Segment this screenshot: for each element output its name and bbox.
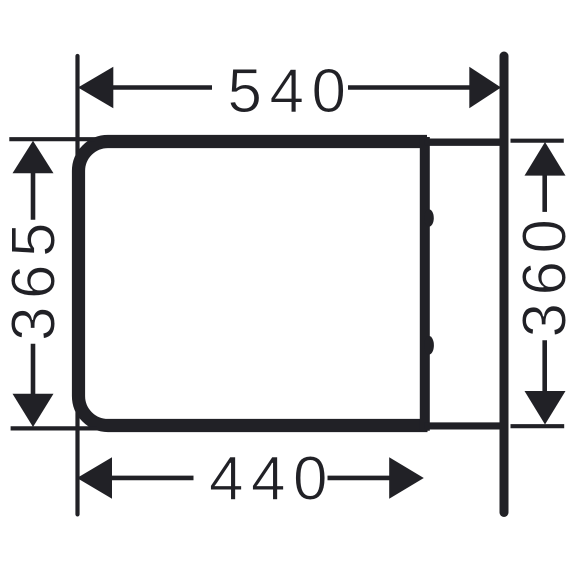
seat outline (rounded profile) (79, 142, 428, 426)
dimension 540 line left segment (110, 85, 212, 90)
dimension 360 arrow bottom (525, 391, 566, 425)
dimension 365 line upper segment (31, 171, 36, 220)
wall line (500, 56, 509, 513)
dimension 440 line right segment (328, 476, 392, 481)
dimension 365 arrow bottom (13, 394, 54, 427)
dimension 440 arrow left (77, 457, 112, 498)
hinge pin bump lower (424, 336, 434, 355)
dimension 365 arrow top (13, 141, 54, 174)
dimension 540 line right segment (348, 85, 471, 90)
dimension 360 line lower segment (542, 340, 547, 393)
connector line top (seat to wall) (425, 139, 501, 146)
dimension 360 line upper segment (542, 173, 547, 212)
svg-text:540: 540 (228, 57, 354, 126)
dimension 360 arrow top (525, 142, 566, 176)
svg-text:440: 440 (209, 445, 335, 514)
seat back edge (vertical) (420, 137, 430, 431)
extension line bottom-left (11, 426, 97, 430)
extension line top-right (511, 139, 564, 143)
dimension 440 arrow right (389, 457, 424, 498)
dimension 365 line lower segment (31, 344, 36, 395)
hinge pin bump upper (424, 209, 434, 226)
dimension 540 arrow right (469, 67, 501, 109)
dimension 440 line left segment (110, 476, 194, 481)
dimension 540 arrow left (78, 67, 113, 109)
extension line top-left (9, 137, 95, 141)
svg-text:360: 360 (511, 212, 568, 338)
extension line bottom-right (511, 424, 565, 428)
connector line bottom (seat to wall) (425, 422, 501, 429)
svg-text:365: 365 (0, 215, 69, 341)
left extension line (vertical) (75, 56, 79, 514)
